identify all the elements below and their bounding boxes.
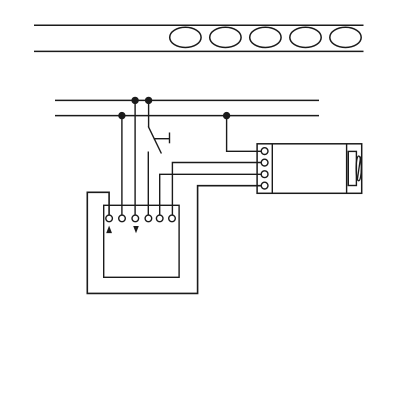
cable clamp plate <box>348 151 356 185</box>
control unit pin 1 <box>261 148 268 155</box>
wire from N node to control unit pin 1 <box>227 116 262 152</box>
terminal 1 <box>106 215 113 222</box>
cable clamp lever <box>357 157 361 181</box>
wire from control unit pin 2 to terminal 6 <box>172 163 261 216</box>
control unit terminal block divider <box>271 144 273 194</box>
down arrow marker <box>133 226 139 233</box>
shutter switch body <box>104 205 179 277</box>
node on N line feeding terminal 2 <box>119 113 125 119</box>
terminal 5 <box>156 215 163 222</box>
up arrow marker <box>106 226 112 234</box>
control unit pin 2 <box>261 159 268 166</box>
wire loop from control unit pin 4 around box to terminal 1 <box>87 186 261 294</box>
cable cross-section 5 <box>330 27 361 47</box>
terminal 3 <box>132 215 139 222</box>
switch S1 actuator rod <box>154 138 170 140</box>
wire from L node to switch S1 <box>148 100 150 127</box>
wire from L node to terminal 3 <box>134 100 136 215</box>
cable cross-section 4 <box>290 27 321 47</box>
switch S1 actuator cap <box>169 133 171 144</box>
cable cross-section 2 <box>210 27 241 47</box>
cable cross-section 3 <box>250 27 281 47</box>
node on L line feeding terminal 3 <box>132 97 138 103</box>
switch S1 blade <box>148 127 161 154</box>
control unit pin 3 <box>261 171 268 178</box>
cable trunking lower edge <box>34 50 364 52</box>
wire from control unit pin 3 to terminal 5 <box>160 174 262 215</box>
wire N supply line <box>55 115 319 117</box>
control unit right compartment divider <box>346 144 348 194</box>
terminal 4 <box>145 215 152 222</box>
terminal 2 <box>119 215 126 222</box>
terminal 6 <box>169 215 176 222</box>
cable trunking upper edge <box>34 24 364 26</box>
control unit pin 4 <box>261 182 268 189</box>
wire from N node to terminal 2 <box>121 116 123 216</box>
node on L line feeding switch S1 <box>146 97 152 103</box>
cable clamp roller <box>356 156 361 181</box>
wire L supply line <box>55 99 319 101</box>
control unit body <box>257 144 362 194</box>
node on N line feeding control unit <box>224 113 230 119</box>
wire from switch S1 to terminal 4 <box>147 152 149 216</box>
cable cross-section 1 <box>170 27 201 47</box>
